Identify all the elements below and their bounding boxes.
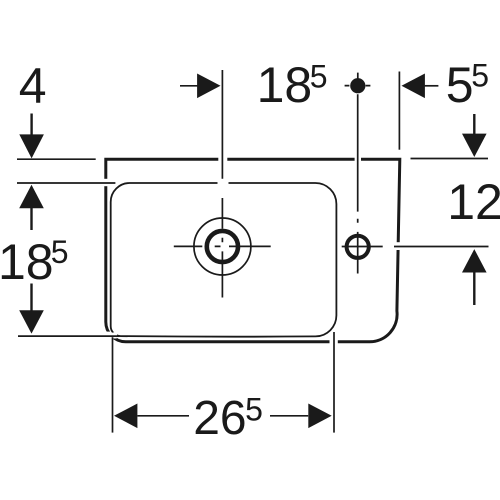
basin inner outline xyxy=(111,183,337,337)
drain inner circle xyxy=(207,231,238,262)
gap in outer outline: bottom-left corner at extension lines xyxy=(104,332,117,339)
gap in outer outline: bottom edge at 26.5 right extension xyxy=(330,338,338,345)
gap in basin outline: bottom-left arc at extension line crossing xyxy=(112,332,117,335)
svg-text:12: 12 xyxy=(447,174,500,230)
svg-text:26: 26 xyxy=(193,392,246,445)
tap horizontal centerline xyxy=(342,246,489,248)
extension line top edge left xyxy=(17,158,96,160)
dim 18.5 left: arrow down xyxy=(19,310,44,333)
dim 18.5 top: arrow right xyxy=(197,74,220,99)
svg-text:5: 5 xyxy=(471,58,489,94)
dim 26.5 bottom: arrow right xyxy=(308,404,331,429)
dim 26.5 bottom: left line xyxy=(138,415,190,417)
dim terminator dot on tap centerline xyxy=(350,78,365,93)
dim 18.5 left: arrow up xyxy=(19,185,44,208)
extension line basin top left xyxy=(17,182,115,184)
dim 4: arrow down xyxy=(19,134,44,158)
svg-text:5: 5 xyxy=(245,392,263,428)
dim 12 right: upper shaft xyxy=(473,114,475,134)
dim 26.5 bottom: right line xyxy=(270,415,308,417)
svg-text:18: 18 xyxy=(0,234,54,290)
gap in outer outline: top edge at tap centerline xyxy=(355,156,361,164)
gap in outer outline: right edge at tap crosshair xyxy=(394,242,403,250)
drain horizontal centerline xyxy=(174,245,271,247)
svg-text:5: 5 xyxy=(51,234,69,270)
svg-text:4: 4 xyxy=(19,58,47,114)
dim 12 right: lower shaft xyxy=(473,272,475,305)
drain vertical centerline xyxy=(221,70,223,298)
dim 5.5 top: arrow left xyxy=(402,74,425,99)
washbasin outer outline xyxy=(106,159,400,342)
dim 26.5 bottom: arrow left xyxy=(114,404,137,429)
dim 18.5 left: upper shaft xyxy=(30,208,32,231)
dim 18.5 top: line xyxy=(180,85,198,87)
dim 18.5 left: lower shaft xyxy=(30,284,32,311)
svg-text:5: 5 xyxy=(446,57,474,113)
extension line above right corner xyxy=(398,72,400,150)
tap hole circle xyxy=(347,236,369,258)
extension line basin bottom left xyxy=(18,335,120,337)
dim 12 right: arrow down xyxy=(462,134,487,157)
svg-text:18: 18 xyxy=(257,57,313,113)
extension line top edge right xyxy=(411,158,489,160)
tap vertical centerline xyxy=(357,94,359,273)
drain outer circle xyxy=(194,218,251,275)
dim 12 right: arrow up xyxy=(462,249,487,272)
extension line 26.5 left xyxy=(112,337,114,432)
dim 4: arrow shaft down xyxy=(30,114,32,135)
extension line 26.5 right xyxy=(333,332,335,433)
gap in outer outline: left edge at 18.5 extension xyxy=(102,179,110,186)
dim 5.5 top: line xyxy=(425,85,439,87)
svg-text:5: 5 xyxy=(310,58,328,94)
gap in outer outline: top edge at drain centerline xyxy=(218,156,227,164)
